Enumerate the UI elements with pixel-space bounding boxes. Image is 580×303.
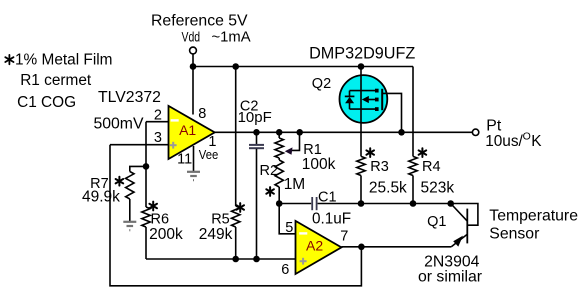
svg-text:6: 6 — [281, 262, 289, 278]
svg-text:1% Metal Film: 1% Metal Film — [15, 52, 113, 69]
svg-text:C1: C1 — [318, 190, 337, 206]
svg-text:R4: R4 — [422, 159, 441, 175]
svg-text:K: K — [531, 133, 542, 150]
svg-text:TLV2372: TLV2372 — [98, 89, 161, 106]
svg-text:10us/: 10us/ — [485, 133, 523, 150]
svg-text:500mV: 500mV — [93, 116, 144, 133]
svg-text:200k: 200k — [149, 226, 183, 243]
svg-text:Q1: Q1 — [427, 214, 446, 230]
svg-text:3: 3 — [154, 130, 162, 146]
svg-text:Vee: Vee — [199, 147, 219, 162]
svg-text:Reference 5V: Reference 5V — [151, 13, 248, 30]
svg-text:C1 COG: C1 COG — [17, 94, 76, 111]
svg-text:R3: R3 — [370, 159, 389, 175]
svg-text:Sensor: Sensor — [489, 226, 539, 243]
svg-text:A2: A2 — [306, 238, 323, 254]
svg-text:DMP32D9UFZ: DMP32D9UFZ — [309, 45, 415, 63]
svg-text:Vdd: Vdd — [182, 30, 201, 45]
svg-text:49.9k: 49.9k — [82, 189, 120, 206]
svg-text:0.1uF: 0.1uF — [312, 211, 351, 228]
svg-text:~1mA: ~1mA — [212, 30, 251, 46]
svg-text:Temperature: Temperature — [489, 208, 578, 225]
svg-text:249k: 249k — [199, 226, 233, 243]
svg-text:523k: 523k — [421, 180, 455, 197]
svg-text:10pF: 10pF — [238, 109, 272, 126]
svg-text:2: 2 — [154, 107, 162, 123]
svg-text:8: 8 — [198, 106, 206, 122]
svg-text:A1: A1 — [179, 122, 196, 138]
svg-text:1M: 1M — [284, 176, 306, 193]
svg-text:R2: R2 — [260, 163, 279, 179]
svg-text:5: 5 — [285, 220, 293, 236]
svg-text:O: O — [523, 130, 531, 142]
svg-text:or similar: or similar — [418, 269, 482, 286]
svg-text:100k: 100k — [302, 156, 336, 173]
svg-text:11: 11 — [177, 152, 192, 168]
svg-text:Q2: Q2 — [312, 76, 331, 92]
svg-text:7: 7 — [340, 229, 348, 245]
svg-text:25.5k: 25.5k — [369, 180, 407, 197]
svg-text:R1 cermet: R1 cermet — [20, 72, 92, 89]
